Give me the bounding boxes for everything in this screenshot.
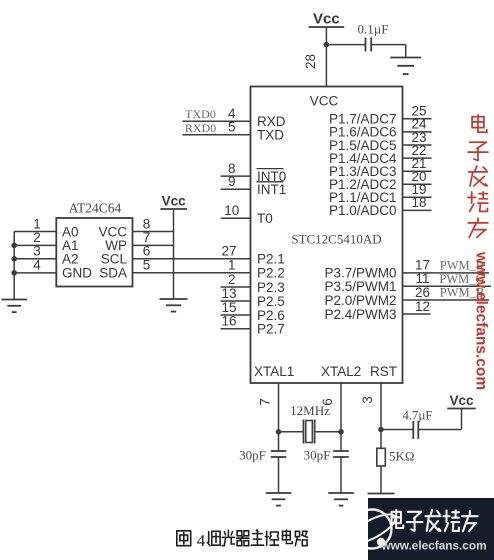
svg-text:27: 27 [221, 244, 236, 259]
svg-text:P2.1: P2.1 [257, 252, 285, 267]
svg-text:12MHz: 12MHz [290, 403, 330, 418]
svg-text:13: 13 [221, 286, 236, 301]
svg-text:SDA: SDA [99, 266, 127, 281]
svg-text:3: 3 [33, 244, 41, 259]
svg-text:0.1µF: 0.1µF [358, 22, 389, 37]
svg-text:5: 5 [228, 120, 236, 135]
svg-text:8: 8 [143, 216, 151, 231]
svg-text:STC12C5410AD: STC12C5410AD [291, 231, 381, 246]
svg-text:www.elecfans.com: www.elecfans.com [473, 251, 490, 390]
svg-text:4: 4 [33, 258, 41, 273]
svg-text:3: 3 [360, 396, 375, 404]
svg-text:28: 28 [303, 54, 318, 69]
svg-text:P2.7: P2.7 [257, 322, 285, 337]
svg-text:TXD0: TXD0 [185, 107, 216, 121]
svg-text:VCC: VCC [98, 224, 127, 239]
svg-text:26: 26 [415, 285, 430, 300]
svg-text:2: 2 [228, 272, 236, 287]
svg-text:9: 9 [228, 174, 236, 189]
svg-text:RXD0: RXD0 [185, 121, 216, 135]
svg-text:10: 10 [224, 203, 239, 218]
svg-text:4: 4 [197, 531, 206, 550]
svg-text:P1.0/ADC0: P1.0/ADC0 [329, 203, 397, 218]
svg-text:30pF: 30pF [304, 448, 331, 463]
svg-text:INT1: INT1 [257, 182, 286, 197]
svg-text:P2.0/PWM2: P2.0/PWM2 [324, 293, 396, 308]
svg-text:1: 1 [228, 258, 236, 273]
svg-text:P2.3: P2.3 [257, 280, 285, 295]
svg-text:T0: T0 [257, 211, 273, 226]
svg-text:A2: A2 [62, 252, 79, 267]
svg-text:Vcc: Vcc [313, 11, 340, 28]
svg-text:5KΩ: 5KΩ [389, 449, 415, 464]
svg-text:Vcc: Vcc [162, 194, 187, 209]
svg-text:A0: A0 [62, 224, 79, 239]
svg-text:P2.4/PWM3: P2.4/PWM3 [324, 307, 396, 322]
svg-text:XTAL1: XTAL1 [254, 364, 294, 379]
svg-text:16: 16 [221, 314, 236, 329]
svg-text:XTAL2: XTAL2 [321, 364, 361, 379]
svg-text:Vcc: Vcc [449, 393, 474, 408]
svg-text:1: 1 [33, 216, 41, 231]
svg-text:www.elecfans.com: www.elecfans.com [380, 539, 486, 553]
svg-text:P2.5: P2.5 [257, 294, 285, 309]
svg-text:4.7µF: 4.7µF [403, 409, 433, 423]
svg-text:GND: GND [62, 266, 92, 281]
svg-text:VCC: VCC [310, 94, 339, 109]
svg-text:30pF: 30pF [239, 448, 266, 463]
svg-text:12: 12 [415, 299, 430, 314]
svg-text:18: 18 [411, 195, 426, 210]
svg-text:TXD: TXD [257, 128, 284, 143]
svg-text:SCL: SCL [101, 252, 128, 267]
svg-text:P2.2: P2.2 [257, 266, 285, 281]
svg-text:AT24C64: AT24C64 [69, 201, 122, 216]
svg-text:7: 7 [258, 398, 273, 406]
svg-text:5: 5 [143, 258, 151, 273]
svg-text:RST: RST [370, 364, 397, 379]
